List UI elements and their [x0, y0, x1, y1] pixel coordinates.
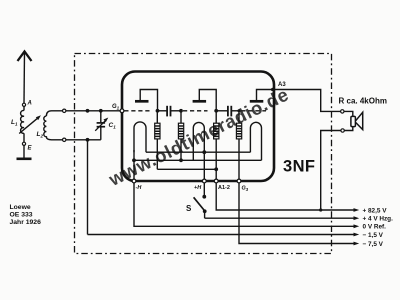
terminal arrow 0V: [354, 224, 360, 228]
-1.5V rail: [88, 234, 355, 236]
rail A (+H): [146, 151, 250, 153]
svg-text:L1: L1: [11, 119, 18, 127]
terminal arrow +82.5V: [354, 208, 360, 212]
wire: [171, 110, 181, 112]
wire: [23, 133, 25, 142]
terminal +H: [202, 179, 206, 183]
wire -H to 0V rail: [134, 183, 354, 226]
terminal arrow -7.5V: [354, 242, 360, 246]
svg-text:+ 4 V Hzg.: + 4 V Hzg.: [363, 216, 394, 223]
+4V rail: [205, 217, 354, 219]
wire: [23, 106, 25, 110]
svg-text:G1: G1: [112, 104, 120, 111]
wire A3 to speaker: [273, 90, 341, 112]
inductor L1: [21, 110, 24, 133]
inductor L2: [44, 111, 52, 140]
junction: [86, 109, 90, 113]
svg-text:www.oldtimeradio.de: www.oldtimeradio.de: [105, 83, 292, 190]
capacitor C1: [95, 111, 108, 140]
resistor R1 (anode load 1): [155, 111, 160, 170]
svg-text:OE 333: OE 333: [10, 212, 33, 219]
svg-text:0 V Ref.: 0 V Ref.: [363, 224, 387, 231]
rail B (-H): [134, 159, 262, 161]
svg-text:+H: +H: [194, 185, 202, 191]
svg-text:− 7,5 V: − 7,5 V: [363, 241, 384, 248]
terminal G1: [120, 109, 124, 113]
wire grid top: [52, 110, 121, 112]
svg-text:-H: -H: [136, 185, 143, 191]
terminal circle: [62, 138, 65, 141]
wire: [23, 145, 25, 158]
junction speaker return: [319, 208, 322, 211]
junction: [86, 138, 90, 142]
filament F1: [134, 122, 146, 152]
node grid2: [179, 109, 183, 113]
svg-text:+ 82,5 V: + 82,5 V: [363, 207, 388, 214]
wire: [216, 110, 227, 112]
triode 2 anode: [193, 90, 217, 110]
svg-text:Jahr 1926: Jahr 1926: [10, 219, 42, 226]
wire F1 left to -H: [133, 150, 135, 181]
node A: [22, 103, 25, 106]
junction: [99, 109, 103, 113]
ground: [17, 158, 32, 161]
variometer arrow: [19, 117, 39, 133]
antenna: [18, 52, 32, 104]
wire: [232, 110, 239, 112]
dash-dot border: [75, 54, 332, 254]
resistor R2 (grid leak 2): [178, 111, 183, 161]
node E: [22, 142, 25, 145]
grid 1 (dashed): [124, 110, 150, 112]
speaker terminal top: [341, 110, 344, 113]
terminal arrow +4V: [354, 216, 360, 220]
filament F2: [193, 122, 204, 160]
svg-text:A: A: [27, 101, 32, 107]
switch S: [194, 183, 207, 218]
terminal -H: [132, 179, 136, 183]
svg-text:E: E: [28, 146, 33, 152]
node anode2: [214, 109, 218, 113]
terminal circle: [62, 109, 65, 112]
tube 3NF envelope: [122, 72, 274, 182]
svg-text:S: S: [186, 204, 192, 213]
svg-text:Loewe: Loewe: [10, 204, 31, 211]
junction: [179, 158, 183, 162]
resistor R3 (anode load 2): [214, 111, 219, 181]
wire A1-2 to +82.5V rail: [216, 183, 354, 210]
svg-text:L2: L2: [37, 131, 44, 139]
terminal G3: [237, 179, 241, 183]
speaker: [344, 111, 363, 130]
svg-text:A3: A3: [278, 82, 286, 88]
wire to -1.5V: [87, 140, 89, 235]
triode 1 anode: [135, 90, 158, 110]
speaker terminal bottom: [341, 129, 344, 132]
terminal arrow -1.5V: [354, 233, 360, 237]
rail C (anodes to A1-2): [157, 168, 216, 170]
svg-text:− 1,5 V: − 1,5 V: [363, 232, 384, 239]
svg-text:C1: C1: [109, 122, 117, 130]
junction: [132, 158, 136, 162]
capacitor tube C: [167, 106, 170, 117]
wire G3 to -7.5V rail: [239, 183, 354, 244]
node anode1: [156, 109, 160, 113]
filament F3: [250, 122, 261, 160]
junction: [202, 150, 206, 154]
junction: [214, 167, 218, 171]
node grid3: [237, 109, 240, 112]
wire speaker return: [321, 131, 341, 211]
grid 2 (dashed): [183, 110, 208, 112]
capacitor tube C: [228, 106, 231, 117]
wire bottom return: [52, 139, 101, 141]
wire F2 right to +H: [203, 152, 205, 181]
svg-text:R ca. 4kOhm: R ca. 4kOhm: [339, 97, 387, 106]
terminal A1-2: [214, 179, 218, 183]
grid 3 (dashed): [241, 110, 266, 112]
resistor R4 (grid leak 3): [236, 111, 241, 181]
svg-text:A1-2: A1-2: [218, 185, 230, 191]
svg-text:G3: G3: [242, 186, 249, 193]
terminal A3: [271, 88, 275, 92]
wire: [158, 110, 167, 112]
svg-text:3NF: 3NF: [283, 158, 315, 176]
triode 3 anode: [250, 90, 273, 102]
